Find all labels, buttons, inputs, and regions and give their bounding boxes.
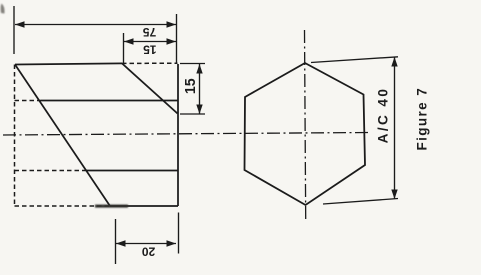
svg-text:15: 15 [143,42,157,56]
svg-text:Figure 7: Figure 7 [415,87,430,151]
svg-text:75: 75 [143,25,157,39]
svg-text:20: 20 [142,245,156,259]
svg-text:15: 15 [183,78,199,94]
svg-text:A/C 40: A/C 40 [376,87,391,144]
